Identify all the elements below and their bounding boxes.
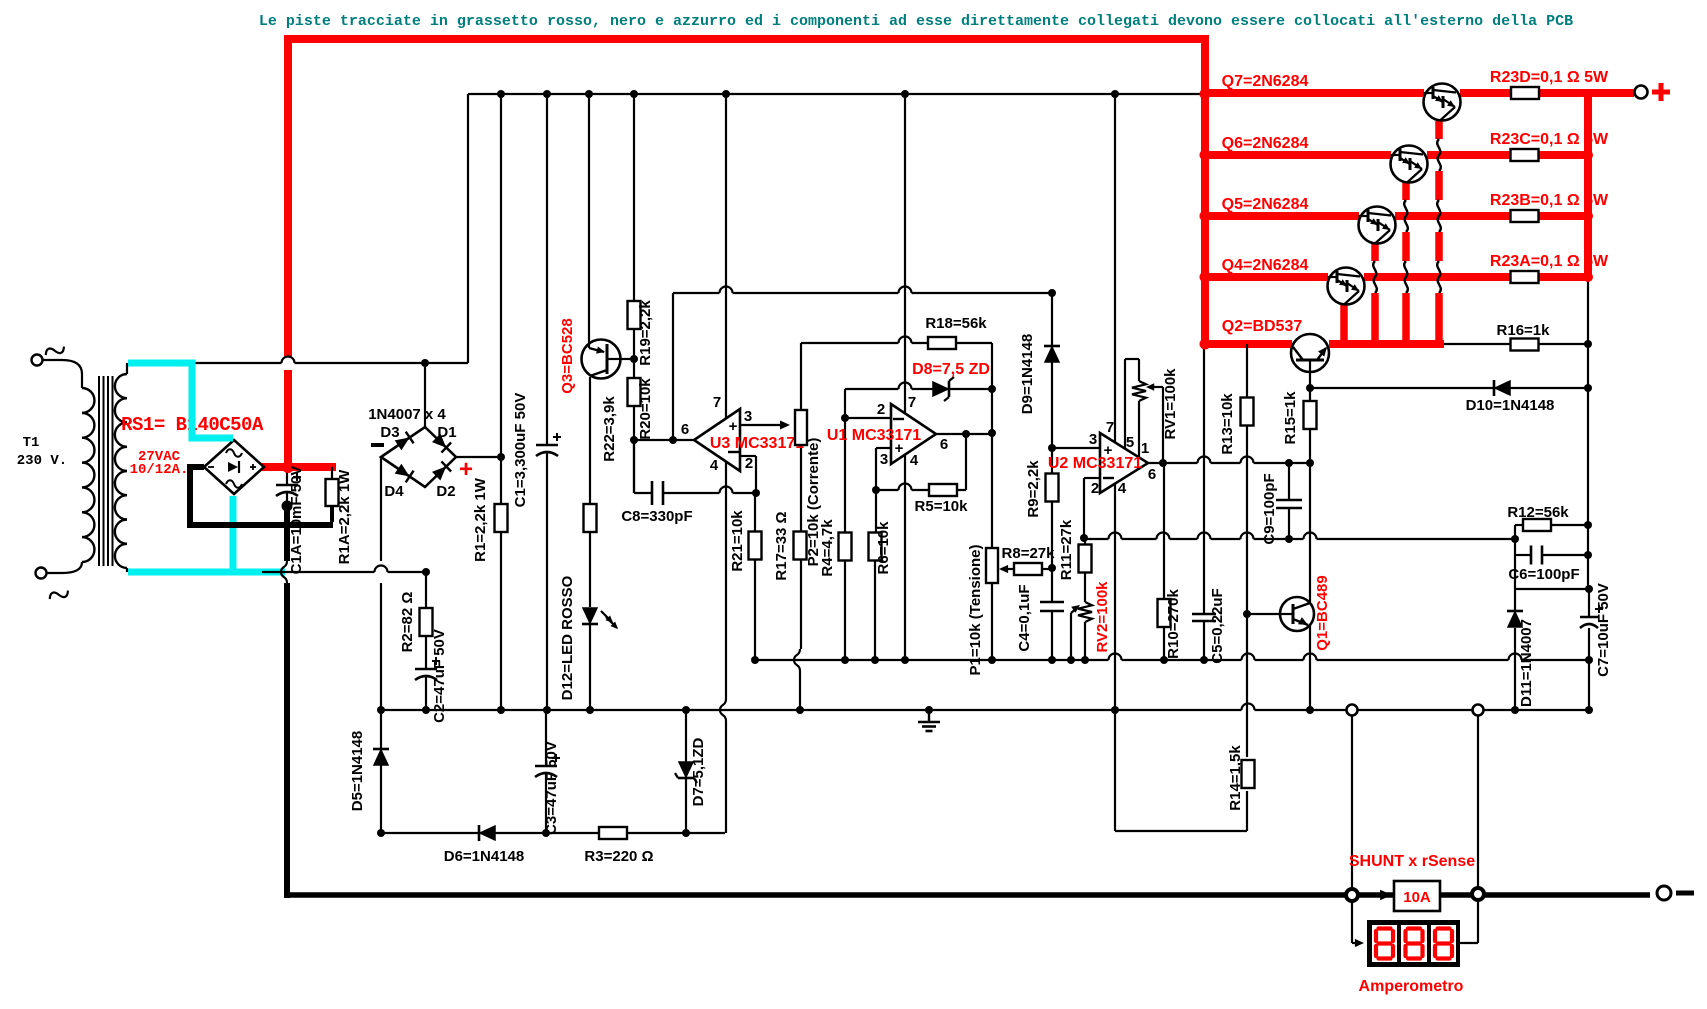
svg-text:R5=10k: R5=10k xyxy=(915,498,969,515)
svg-text:C4=0,1uF: C4=0,1uF xyxy=(1016,584,1033,651)
resistor R1 xyxy=(495,504,508,532)
node right col dots xyxy=(1584,521,1592,559)
node U2 pin7 top xyxy=(1111,90,1119,98)
label R21 xyxy=(729,510,746,572)
node RV1 wiper out xyxy=(1159,459,1167,467)
label C9 xyxy=(1261,473,1278,544)
label D5 xyxy=(349,731,366,811)
svg-text:R20=10k: R20=10k xyxy=(637,378,654,440)
label U2 xyxy=(1048,455,1142,472)
svg-text:Le piste tracciate in grassett: Le piste tracciate in grassetto rosso, n… xyxy=(259,13,1573,30)
label C5 xyxy=(1209,588,1226,663)
wire red right bus xyxy=(1584,92,1592,278)
wire U1 pin4 column xyxy=(904,455,906,660)
svg-text:4: 4 xyxy=(910,452,919,469)
svg-text:R2=82 Ω: R2=82 Ω xyxy=(399,592,416,653)
wire U3 pin2 link xyxy=(740,456,756,493)
wire R5 row xyxy=(876,484,966,490)
svg-text:R17=33 Ω: R17=33 Ω xyxy=(773,511,790,580)
wire D11 link xyxy=(1515,588,1589,590)
label Q2 xyxy=(1222,318,1303,335)
diode D6 xyxy=(479,825,495,841)
terminal sense left xyxy=(1347,705,1358,716)
wire P2 top link xyxy=(801,337,992,343)
wire U1 pin6 row xyxy=(936,433,992,435)
wire bridge2 left column xyxy=(380,457,382,710)
bridge RS1 xyxy=(204,440,264,494)
label C1A xyxy=(288,466,305,575)
label bridge minus xyxy=(371,443,384,447)
node U1 pin7 top xyxy=(901,90,909,98)
node U3 pin6 a xyxy=(630,436,677,444)
wire R21 column xyxy=(754,493,756,660)
wire R2 legs xyxy=(425,572,427,668)
svg-text:1: 1 xyxy=(1141,440,1149,457)
label R8 xyxy=(1002,545,1056,562)
node R18 leg a xyxy=(988,385,996,437)
svg-text:U1 MC33171: U1 MC33171 xyxy=(827,427,921,444)
wire U2 pin3 row xyxy=(1052,447,1100,449)
wire Q7 collector drop xyxy=(1437,121,1441,344)
resistor R23D xyxy=(1511,87,1539,99)
node row833 dots xyxy=(377,829,690,837)
label R17 xyxy=(773,511,790,580)
node C8 right xyxy=(752,489,760,497)
svg-text:R23D=0,1 Ω 5W: R23D=0,1 Ω 5W xyxy=(1490,69,1609,86)
resistor R5 xyxy=(929,484,957,496)
wire C1 column xyxy=(546,94,548,710)
wire red top bus xyxy=(288,39,1205,471)
svg-text:10A: 10A xyxy=(1403,889,1431,906)
wire rail left drop xyxy=(467,94,469,363)
node bridge2 top xyxy=(421,359,429,367)
transformer T1 primary xyxy=(82,388,94,562)
label D11 xyxy=(1518,619,1535,707)
svg-text:R23A=0,1 Ω 5W: R23A=0,1 Ω 5W xyxy=(1490,253,1609,270)
label U3 pin7 xyxy=(713,394,721,411)
label U3 xyxy=(710,435,804,452)
node R8 right xyxy=(1048,564,1056,572)
label R19 xyxy=(637,300,654,366)
diode D5 xyxy=(373,749,389,765)
wire R5 right leg xyxy=(965,434,967,490)
transformer T1 core xyxy=(99,376,113,566)
svg-text:4: 4 xyxy=(710,457,719,474)
resistor R22 xyxy=(584,504,597,532)
svg-text:C8=330pF: C8=330pF xyxy=(621,508,692,525)
wire U2 pin4 column xyxy=(1114,484,1116,831)
svg-text:D1: D1 xyxy=(437,424,456,441)
label U3 pin4 xyxy=(710,457,719,474)
resistor R19 xyxy=(628,301,641,329)
svg-text:R18=56k: R18=56k xyxy=(925,315,987,332)
resistor R13 xyxy=(1241,398,1254,426)
label R23C xyxy=(1490,131,1609,148)
node C9 xyxy=(1285,459,1293,543)
svg-text:D7=5,1ZD: D7=5,1ZD xyxy=(690,737,707,806)
capacitor C4 xyxy=(1040,602,1064,611)
svg-text:2: 2 xyxy=(877,401,885,418)
label shunt xyxy=(1349,853,1475,870)
label Q5 xyxy=(1222,196,1309,213)
svg-text:D8=7,5 ZD: D8=7,5 ZD xyxy=(912,361,990,378)
svg-text:D3: D3 xyxy=(380,424,399,441)
svg-text:10/12A.: 10/12A. xyxy=(130,462,189,478)
svg-text:C5=0,22uF: C5=0,22uF xyxy=(1209,588,1226,663)
label 27VAC xyxy=(138,449,181,465)
wire secondary top xyxy=(126,363,128,374)
label Q6 xyxy=(1222,135,1309,152)
wire RV1 legs xyxy=(1125,359,1139,457)
svg-text:D9=1N4148: D9=1N4148 xyxy=(1019,334,1036,414)
label Q1 xyxy=(1314,575,1331,650)
svg-text:R21=10k: R21=10k xyxy=(729,510,746,572)
wire C1A bottom leg xyxy=(286,492,288,506)
node C1A bottom xyxy=(282,501,293,512)
svg-text:C1=3,300uF 50V: C1=3,300uF 50V xyxy=(512,393,529,508)
label U1 pin3 xyxy=(880,451,888,468)
wire R16 row xyxy=(1444,343,1588,345)
node red RS1 junction xyxy=(282,461,294,473)
svg-text:R15=1k: R15=1k xyxy=(1282,391,1299,445)
capacitor C6 xyxy=(1531,546,1542,565)
diode D7 zener xyxy=(675,762,697,783)
wire right column 1588 xyxy=(1587,278,1589,589)
svg-text:T1: T1 xyxy=(23,435,40,451)
label C2 xyxy=(431,629,448,723)
label C8 xyxy=(621,508,692,525)
svg-text:Q6=2N6284: Q6=2N6284 xyxy=(1222,135,1309,152)
svg-text:D10=1N4148: D10=1N4148 xyxy=(1466,397,1555,414)
op-amp U1 xyxy=(891,404,936,464)
capacitor C8 xyxy=(652,481,663,505)
wire R14 loop xyxy=(1115,830,1247,832)
node row660 dots xyxy=(751,656,1593,664)
label U2 pin3 xyxy=(1089,431,1097,448)
svg-text:R22=3,9k: R22=3,9k xyxy=(601,396,618,462)
wire row 660 xyxy=(755,654,1589,660)
label U2 pin2 xyxy=(1091,480,1099,497)
capacitor C5 xyxy=(1192,614,1216,621)
terminal plus xyxy=(1635,83,1671,101)
label U3 pin6 xyxy=(681,421,689,438)
wire sense drop left xyxy=(1351,715,1353,890)
label Q3 xyxy=(559,318,576,393)
label 1N4007x4 xyxy=(368,406,446,423)
label U2 pin1 xyxy=(1141,440,1149,457)
wire ammeter right xyxy=(1460,899,1478,943)
resistor R10 xyxy=(1158,599,1171,627)
node R5 top xyxy=(962,430,970,438)
svg-text:U2 MC33171: U2 MC33171 xyxy=(1048,455,1142,472)
wire Q6 collector drop xyxy=(1404,182,1408,344)
resistor R23B xyxy=(1511,210,1539,222)
svg-text:Q2=BD537: Q2=BD537 xyxy=(1222,318,1303,335)
wire D10 row xyxy=(1310,387,1588,389)
label RV2 xyxy=(1094,581,1111,653)
node red bus joints xyxy=(1200,89,1594,350)
wire R15 column xyxy=(1309,388,1311,603)
svg-text:C1A=10mF 50V: C1A=10mF 50V xyxy=(288,466,305,575)
label R5 xyxy=(915,498,969,515)
wire Q4 collector drop xyxy=(1340,302,1348,344)
wire bridge2 plus link xyxy=(456,456,501,458)
wire secondary bottom xyxy=(126,568,128,572)
label R14 xyxy=(1227,745,1244,811)
wire C1A top leg xyxy=(286,470,288,484)
op-amp U2 xyxy=(1100,433,1148,493)
wire top rail xyxy=(468,93,1201,95)
wire bridge2 top stub xyxy=(424,363,426,427)
wire AC row top xyxy=(192,357,468,363)
label D4 xyxy=(384,483,404,500)
label D1 xyxy=(437,424,456,441)
label R23D xyxy=(1490,69,1609,86)
svg-text:R12=56k: R12=56k xyxy=(1507,504,1569,521)
node Q3 base xyxy=(630,355,638,363)
svg-text:Q4=2N6284: Q4=2N6284 xyxy=(1222,257,1309,274)
wire cyan AC1 xyxy=(128,363,233,438)
wire thick RS1 minus xyxy=(190,467,333,525)
wire U1 pin2 row xyxy=(845,417,891,419)
wire U3 pin3 row xyxy=(740,421,790,430)
label R3 xyxy=(584,848,653,865)
node R5 left xyxy=(872,486,880,494)
diode D1 xyxy=(432,434,451,453)
wire Q1 emitter leg xyxy=(1309,625,1311,710)
wire U3 pin6 row xyxy=(634,439,694,441)
bridge D1-D4 xyxy=(381,427,456,487)
svg-text:C6=100pF: C6=100pF xyxy=(1508,566,1579,583)
svg-text:R1A=2,2k 1W: R1A=2,2k 1W xyxy=(336,469,353,564)
node Q3 col top xyxy=(585,90,593,98)
label U2 pin7 xyxy=(1106,419,1114,436)
wire U1 pin7 column xyxy=(904,94,906,414)
svg-text:3: 3 xyxy=(744,408,752,425)
svg-text:R23B=0,1 Ω 5W: R23B=0,1 Ω 5W xyxy=(1490,192,1609,209)
label R15 xyxy=(1282,391,1299,445)
wire R10 column xyxy=(1163,463,1165,660)
wire C8 left leg xyxy=(633,440,635,493)
label R1A xyxy=(336,469,353,564)
wire R1 column xyxy=(500,94,502,710)
transformer T1 secondary xyxy=(115,374,127,568)
potentiometer P1 xyxy=(986,548,998,583)
resistor R3 xyxy=(599,827,627,839)
wire row 293 xyxy=(673,287,1052,294)
potentiometer P2 xyxy=(795,410,807,445)
svg-text:U3 MC33171: U3 MC33171 xyxy=(710,435,804,452)
label U2 pin4 xyxy=(1118,480,1127,497)
svg-text:R16=1k: R16=1k xyxy=(1497,322,1551,339)
wire red RS1 plus xyxy=(262,463,336,471)
node U1 pin2 xyxy=(841,414,849,422)
label U2 pin6 xyxy=(1148,466,1156,483)
wire R12 row xyxy=(1515,524,1588,526)
diode D4 xyxy=(395,464,414,483)
ground xyxy=(918,710,940,731)
wire RV1 wiper xyxy=(1146,383,1163,463)
diode D8 zener xyxy=(933,377,954,401)
wire P2 R17 column xyxy=(794,343,801,710)
svg-text:R10=270k: R10=270k xyxy=(1165,589,1182,659)
label U1 pin2 xyxy=(877,401,885,418)
svg-text:R13=10k: R13=10k xyxy=(1219,393,1236,455)
label bridge plus xyxy=(459,456,473,483)
node R19 top xyxy=(630,90,638,98)
label ammeter xyxy=(1359,978,1464,995)
resistor R6 xyxy=(869,533,882,561)
transistor Q5 xyxy=(1359,207,1396,244)
svg-text:7: 7 xyxy=(1106,419,1114,436)
svg-text:4: 4 xyxy=(1118,480,1127,497)
transistor Q7 xyxy=(1424,84,1461,121)
label R11 xyxy=(1058,519,1075,580)
svg-text:7: 7 xyxy=(713,394,721,411)
node Q1 base xyxy=(1243,610,1251,618)
label R10 xyxy=(1165,589,1182,659)
wire cyan AC2 xyxy=(128,496,285,572)
wire R9 column xyxy=(1051,448,1053,660)
wire U2 pin6 row xyxy=(1148,457,1310,463)
resistor R12 xyxy=(1523,519,1551,531)
label R18 xyxy=(925,315,987,332)
label T1 xyxy=(17,435,67,469)
wire thick C1A drop xyxy=(281,506,287,898)
svg-text:Q3=BC528: Q3=BC528 xyxy=(559,318,576,393)
svg-text:R4=4,7k: R4=4,7k xyxy=(819,519,836,577)
svg-text:R11=27k: R11=27k xyxy=(1058,519,1075,580)
wire R19 R20 column xyxy=(633,94,635,493)
resistor R8 xyxy=(1014,563,1042,575)
wire AC bottom lead xyxy=(46,562,82,573)
wire C7 column xyxy=(1588,589,1590,710)
ammeter display xyxy=(1367,920,1460,967)
wire U2 pin2 link xyxy=(1084,478,1100,538)
resistor R17 xyxy=(794,532,807,560)
resistor R20 xyxy=(628,378,641,406)
wire Q5 collector drop xyxy=(1373,242,1377,344)
svg-text:RV1=100k: RV1=100k xyxy=(1162,368,1179,440)
svg-text:R3=220 Ω: R3=220 Ω xyxy=(584,848,653,865)
svg-text:D5=1N4148: D5=1N4148 xyxy=(349,731,366,811)
capacitor C1A xyxy=(276,473,301,496)
wire C2 leg xyxy=(425,675,427,710)
label R23A xyxy=(1490,253,1609,270)
label D7 xyxy=(690,737,707,806)
label D12 xyxy=(559,575,576,700)
wire R4 column xyxy=(844,389,846,660)
wire C5 column xyxy=(1203,344,1205,660)
wire row 833 xyxy=(381,832,725,834)
potentiometer RV1 xyxy=(1132,381,1146,401)
wire D7 legs xyxy=(685,710,687,833)
potentiometer RV2 xyxy=(1078,602,1092,622)
label C3 xyxy=(543,741,560,835)
terminal AC top xyxy=(32,343,66,366)
node D9 top xyxy=(1048,289,1056,297)
node D10 row xyxy=(1306,384,1592,392)
wire C6 row xyxy=(1515,554,1588,556)
resistor R23C xyxy=(1511,149,1539,161)
label Q4 xyxy=(1222,257,1309,274)
label D2 xyxy=(436,483,455,500)
wire AC row bottom xyxy=(262,566,426,573)
resistor R21 xyxy=(749,532,762,560)
wire R6 column xyxy=(875,448,876,660)
terminal shunt right xyxy=(1472,888,1484,900)
wire R13 column xyxy=(1246,344,1248,831)
label D10 xyxy=(1466,397,1555,414)
svg-text:6: 6 xyxy=(681,421,689,438)
svg-text:R1=2,2k 1W: R1=2,2k 1W xyxy=(472,477,489,562)
wire R11 column xyxy=(1084,538,1086,660)
wire R12C6 left leg xyxy=(1514,525,1516,589)
label R6 xyxy=(875,521,892,575)
resistor R9 xyxy=(1046,474,1059,502)
diode D2 xyxy=(432,461,451,480)
wire RV2 wiper xyxy=(1071,605,1080,660)
svg-text:6: 6 xyxy=(1148,466,1156,483)
label 10 12A xyxy=(130,462,189,478)
svg-text:C3=47uF 50V: C3=47uF 50V xyxy=(543,741,560,835)
svg-text:Q5=2N6284: Q5=2N6284 xyxy=(1222,196,1309,213)
node D11 top xyxy=(1585,585,1593,593)
svg-text:C7=10uF 50V: C7=10uF 50V xyxy=(1595,583,1612,677)
wire Q2 base leg xyxy=(1309,372,1311,388)
svg-text:R19=2,2k: R19=2,2k xyxy=(637,300,654,366)
label D6 xyxy=(444,848,524,865)
svg-text:C9=100pF: C9=100pF xyxy=(1261,473,1278,544)
title note xyxy=(259,13,1573,30)
wire row 539 xyxy=(1084,533,1515,540)
diode D3 xyxy=(395,432,414,451)
node R12C6 left mid xyxy=(1511,535,1519,543)
resistor R2 xyxy=(420,608,433,636)
op-amp U3 xyxy=(694,409,740,471)
label U3 pin3 xyxy=(744,408,752,425)
wire node293 column xyxy=(672,293,674,440)
label U2 pin5 xyxy=(1126,434,1134,451)
label R22 xyxy=(601,396,618,462)
svg-text:D6=1N4148: D6=1N4148 xyxy=(444,848,524,865)
svg-text:Q7=2N6284: Q7=2N6284 xyxy=(1222,73,1309,90)
label U1 pin4 xyxy=(910,452,919,469)
label R1 xyxy=(472,477,489,562)
label R9 xyxy=(1025,460,1042,518)
svg-text:D2: D2 xyxy=(436,483,455,500)
svg-text:R8=27k: R8=27k xyxy=(1002,545,1056,562)
wire red row Q5 xyxy=(1205,212,1588,220)
svg-text:P1=10k (Tensione): P1=10k (Tensione) xyxy=(967,544,984,675)
label R16 xyxy=(1497,322,1551,339)
wire U3 pin4 column xyxy=(720,462,726,833)
node U2 pin2 low xyxy=(1080,534,1088,542)
svg-text:RV2=100k: RV2=100k xyxy=(1094,581,1111,653)
wire D9 column xyxy=(1051,293,1053,448)
label R20 xyxy=(637,378,654,440)
terminal sense right xyxy=(1473,705,1484,716)
capacitor C2 xyxy=(415,657,440,680)
wire Q1 base row xyxy=(1247,613,1283,615)
capacitor C9 xyxy=(1276,500,1302,508)
resistor R4 xyxy=(839,533,852,561)
svg-text:SHUNT x rSense: SHUNT x rSense xyxy=(1349,853,1475,870)
diode D10 xyxy=(1494,380,1510,396)
wire C9 column xyxy=(1288,463,1290,539)
svg-text:R6=10k: R6=10k xyxy=(875,521,892,575)
transistor Q2 xyxy=(1291,334,1329,372)
